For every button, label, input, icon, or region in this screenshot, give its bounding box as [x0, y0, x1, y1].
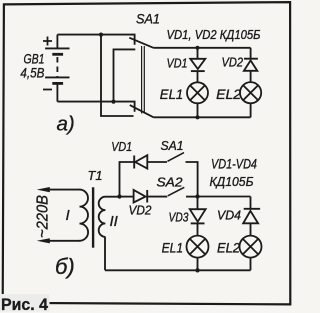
node branch1 bottom [195, 115, 199, 119]
diode VD2 circuit a [244, 48, 258, 82]
lamp EL2 circuit a [240, 82, 261, 117]
svg-text:VD1: VD1 [167, 55, 188, 70]
svg-text:EL2: EL2 [216, 87, 242, 102]
transformer core [92, 187, 94, 247]
lamp EL1 circuit a [187, 82, 208, 117]
svg-text:4,5В: 4,5В [20, 65, 44, 81]
wire battery minus to SA1 bottom contact [57, 102, 134, 112]
svg-text:~220В: ~220В [35, 195, 52, 238]
wire bottom rail circuit b [105, 269, 251, 271]
wire from top junction down to lower contact [101, 35, 134, 116]
arrow to mains bottom [37, 238, 50, 243]
lamp EL2 circuit b [240, 236, 262, 271]
svg-text:Рис. 4: Рис. 4 [1, 295, 49, 313]
diode VD4 [243, 197, 260, 236]
svg-text:VD1-VD4: VD1-VD4 [211, 156, 257, 172]
svg-text:VD2: VD2 [129, 203, 153, 218]
svg-text:EL2: EL2 [217, 240, 240, 255]
switch SA1 circuit b [168, 153, 185, 162]
diode VD1 circuit b [134, 155, 167, 168]
svg-text:а): а) [57, 112, 75, 135]
transformer T1 secondary winding II [99, 197, 120, 271]
arrow to mains top [37, 187, 50, 192]
diode VD2 circuit b [134, 190, 168, 203]
node top junction [99, 33, 103, 37]
node main junction [195, 194, 199, 198]
svg-text:VD1: VD1 [111, 139, 132, 154]
diode VD3 [190, 197, 206, 236]
battery minus sign [43, 89, 52, 91]
svg-text:SA1: SA1 [136, 11, 160, 26]
wire junction up to VD1 path [120, 162, 135, 197]
svg-text:II: II [110, 213, 118, 230]
battery plus sign [43, 37, 52, 46]
svg-text:VD4: VD4 [217, 207, 241, 222]
svg-text:SA1: SA1 [161, 138, 184, 153]
wire junction to VD2 [120, 196, 134, 198]
node bottom junction [111, 100, 115, 104]
battery GB1 [45, 35, 69, 102]
svg-text:КД105Б: КД105Б [210, 174, 255, 189]
wire bottom rail [154, 116, 251, 118]
diode VD1 circuit a [190, 48, 205, 83]
svg-text:б): б) [55, 254, 75, 279]
svg-text:VD1, VD2 КД105Б: VD1, VD2 КД105Б [167, 28, 261, 42]
svg-text:T1: T1 [88, 168, 103, 183]
lamp EL1 circuit b [187, 236, 209, 271]
node branch1 top [195, 46, 199, 50]
switch SA1 circuit a [129, 38, 153, 118]
svg-text:VD3: VD3 [169, 210, 190, 225]
wire bracket from bottom junction up to top second contact [114, 49, 136, 101]
wire top rail [153, 47, 250, 49]
transformer T1 primary winding I [44, 190, 88, 241]
svg-text:VD2: VD2 [222, 54, 244, 69]
svg-text:EL1: EL1 [160, 87, 183, 102]
caption Рис. 4 [0, 294, 50, 312]
wire battery plus to SA1 top contact [57, 35, 134, 45]
switch SA2 circuit b [168, 187, 185, 196]
svg-text:EL1: EL1 [162, 240, 184, 255]
wire rail to VD4 branch [198, 196, 251, 198]
node bottom rail junction [195, 268, 199, 272]
node secondary top junction [117, 194, 121, 198]
svg-text:I: I [66, 207, 70, 224]
svg-text:SA2: SA2 [157, 175, 184, 190]
